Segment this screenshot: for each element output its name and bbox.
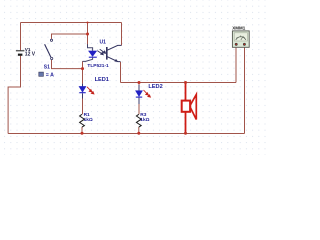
U1 cathode lead [83, 58, 93, 62]
svg-text:TLP521-1: TLP521-1 [87, 63, 109, 69]
node R3 rail junction [137, 132, 140, 135]
LED2 anode pin [138, 85, 140, 91]
wire XMM minus [244, 48, 246, 134]
svg-text:= A: = A [46, 72, 54, 78]
svg-text:U1: U1 [100, 40, 107, 46]
wire switch bottom [52, 60, 83, 69]
svg-text:1kΩ: 1kΩ [84, 117, 93, 123]
LED1 anode pin [82, 84, 84, 87]
wire top rail [21, 22, 122, 24]
U1 transistor base bar [106, 47, 108, 60]
wire LED1 to R1 [82, 99, 84, 115]
wire XMM plus [235, 48, 237, 83]
wire left rail battery top [20, 23, 22, 51]
svg-text:LED2: LED2 [148, 84, 162, 90]
wire bottom rail [8, 133, 244, 135]
LED1 cathode pin [82, 93, 84, 98]
LED1 [79, 77, 109, 94]
wire emitter drop [120, 62, 122, 83]
switch S1 [39, 39, 54, 78]
speaker LS1 [182, 95, 197, 120]
svg-text:1kΩ: 1kΩ [140, 117, 149, 123]
battery V1 [16, 47, 36, 58]
resistor R1 [80, 112, 93, 127]
wire R1 to rail [81, 127, 83, 134]
wire R3 to rail [138, 127, 140, 134]
node cathode junction [81, 67, 84, 70]
wire switch top [52, 34, 89, 39]
optocoupler U1 TLP521-1 [83, 40, 122, 69]
node R1 rail junction [81, 132, 84, 135]
U1 light arrows [97, 49, 105, 55]
resistor R3 [136, 112, 149, 127]
wire collector drop [121, 23, 123, 46]
wire speaker bottom [185, 112, 187, 134]
svg-text:LED1: LED1 [95, 77, 109, 83]
U1 emitter lead with arrow [107, 57, 121, 62]
svg-text:12 V: 12 V [25, 52, 36, 58]
U1 LED triangle [88, 51, 96, 57]
wire LED2 to R3 [138, 104, 140, 114]
U1 anode lead [88, 44, 93, 51]
node speaker junction [184, 81, 187, 84]
svg-text:R3: R3 [140, 112, 146, 118]
wire cathode to LED1 [82, 61, 84, 83]
wire emitter rail [121, 82, 237, 84]
U1 LED cathode bar [89, 56, 97, 58]
multimeter XMM1 [232, 25, 249, 47]
LED2 cathode pin [138, 98, 140, 104]
svg-text:XMM1: XMM1 [232, 25, 245, 30]
svg-text:R1: R1 [84, 112, 90, 118]
wire left rail battery bottom [8, 56, 20, 134]
wire anode drop [87, 23, 89, 45]
wire LED2 drop [138, 83, 140, 85]
svg-text:S1: S1 [44, 64, 50, 70]
LED2 [135, 84, 162, 97]
U1 collector lead [107, 45, 122, 50]
wire speaker top [185, 83, 187, 101]
node LED2 junction [138, 81, 141, 84]
node speaker rail junction [184, 132, 187, 135]
node anode junction [86, 33, 89, 36]
node top rail junction [87, 22, 89, 24]
